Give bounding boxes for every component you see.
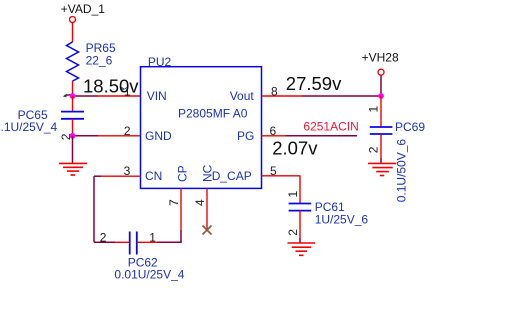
svg-text:VIN: VIN — [147, 89, 167, 103]
svg-text:+VH28: +VH28 — [362, 51, 399, 65]
svg-text:PG: PG — [237, 129, 254, 143]
ground (PC61) — [288, 243, 316, 255]
wire (CN to PC62, left leg) — [93, 176, 95, 242]
wire — [299, 211, 301, 238]
svg-text:27.59v: 27.59v — [286, 73, 342, 94]
wire (node A to PC65) — [72, 96, 74, 111]
resistor PR65 — [67, 41, 116, 81]
svg-text:4: 4 — [193, 199, 207, 206]
pin 8 (Vout) — [262, 95, 303, 97]
pin 7 (CP) — [180, 188, 182, 230]
svg-text:3: 3 — [124, 164, 131, 178]
svg-text:2: 2 — [100, 230, 107, 244]
pin 3 (CN) wire — [94, 175, 101, 177]
no-connect X — [203, 226, 212, 235]
svg-text:1U/25V_6: 1U/25V_6 — [315, 213, 369, 227]
svg-text:+VAD_1: +VAD_1 — [61, 2, 105, 16]
svg-text:2: 2 — [286, 229, 300, 236]
svg-text:GND: GND — [145, 129, 172, 143]
wire — [299, 176, 301, 204]
svg-text:D_CAP: D_CAP — [212, 169, 252, 183]
capacitor PC62 — [114, 232, 184, 282]
ground (PC65) — [59, 136, 87, 175]
wire — [180, 230, 182, 243]
node A junction dot — [70, 93, 76, 99]
svg-text:2: 2 — [367, 146, 381, 153]
svg-text:6251ACIN: 6251ACIN — [303, 120, 358, 134]
node C junction dot — [378, 93, 384, 99]
svg-text:8: 8 — [271, 84, 278, 98]
power +VH28 — [362, 51, 399, 76]
wire — [137, 241, 157, 243]
svg-text:1: 1 — [286, 191, 300, 198]
node B junction dot — [70, 133, 76, 139]
wire — [72, 23, 74, 42]
svg-text:CP: CP — [175, 165, 189, 182]
svg-text:P2805MF A0: P2805MF A0 — [178, 106, 248, 120]
svg-text:22_6: 22_6 — [86, 54, 113, 68]
wire — [302, 95, 381, 97]
wire — [101, 175, 141, 177]
wire — [380, 75, 382, 96]
capacitor PC69 — [370, 120, 426, 202]
svg-text:5: 5 — [270, 164, 277, 178]
probe arrow (18.50v probe at junction) — [63, 94, 70, 98]
wire — [380, 96, 382, 127]
svg-text:2.07v: 2.07v — [272, 138, 318, 159]
wire — [98, 95, 141, 97]
wire — [380, 134, 382, 158]
wire — [72, 119, 74, 136]
wire — [98, 135, 141, 137]
wire — [72, 81, 74, 96]
probe tick (at 18.50v text) — [121, 87, 125, 91]
svg-text:NC: NC — [200, 164, 214, 182]
svg-text:CN: CN — [145, 169, 162, 183]
svg-text:PU2: PU2 — [148, 55, 172, 69]
svg-text:2: 2 — [124, 124, 131, 138]
wire — [286, 135, 358, 137]
power +VAD_1 — [61, 2, 105, 22]
op-amp ... actually IC PU2 box — [141, 55, 262, 188]
svg-text:6: 6 — [270, 124, 277, 138]
svg-text:0.01U/25V_4: 0.01U/25V_4 — [114, 268, 184, 282]
wire (VIN net horizontal) — [73, 95, 99, 97]
capacitor PC61 — [289, 200, 369, 227]
svg-text:18.50v: 18.50v — [83, 75, 139, 96]
svg-text:1: 1 — [367, 106, 381, 113]
pin 5 (D_CAP) — [262, 175, 301, 177]
capacitor PC65 — [1, 108, 85, 134]
pin 6 (PG) — [262, 135, 286, 137]
wire — [94, 241, 115, 243]
svg-text:0.1U/50V_6: 0.1U/50V_6 — [395, 139, 409, 203]
svg-text:Vout: Vout — [230, 89, 255, 103]
svg-text:PC69: PC69 — [395, 120, 425, 134]
svg-text:.1U/25V_4: .1U/25V_4 — [1, 120, 58, 134]
svg-text:7: 7 — [167, 199, 181, 206]
ground (PC69) — [368, 163, 396, 175]
wire (GND net horizontal) — [73, 135, 99, 137]
pin 4 (NC) — [206, 188, 208, 229]
